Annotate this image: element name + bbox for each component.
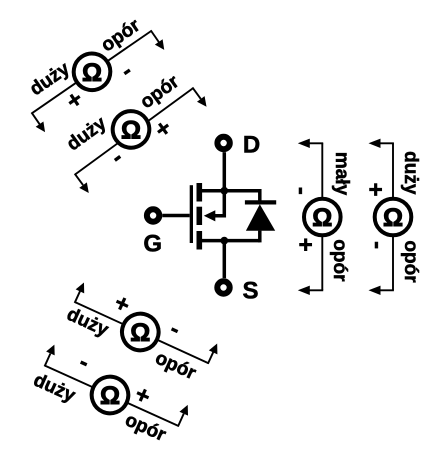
svg-text:G: G xyxy=(143,230,162,257)
svg-text:S: S xyxy=(242,278,258,305)
probe arrow M3 right xyxy=(208,352,213,364)
wire diode top xyxy=(258,189,262,203)
probe arrow M5 top xyxy=(309,142,323,144)
meter circle M2 xyxy=(105,104,156,155)
svg-text:+: + xyxy=(361,182,388,196)
probe arrow M4 left xyxy=(45,353,51,366)
wire M6 main line xyxy=(392,143,394,290)
ohmmeter M1 (duży opór, top-left) xyxy=(12,5,173,142)
terminal S ring xyxy=(217,281,229,293)
svg-text:Ω: Ω xyxy=(100,382,120,410)
svg-text:Ω: Ω xyxy=(121,116,141,144)
probe arrow M5 bottom xyxy=(309,289,323,291)
svg-text:mały: mały xyxy=(331,152,352,196)
probe arrow M6 top xyxy=(380,142,394,144)
meter circle M3 xyxy=(116,308,165,357)
wire M3 main line xyxy=(75,302,208,363)
probe arrow M1 right xyxy=(151,30,159,42)
wire body tie xyxy=(212,191,224,216)
terminal D ring xyxy=(217,137,229,149)
probe arrow M2 right xyxy=(192,87,200,98)
svg-text:-: - xyxy=(364,241,391,249)
wire M4 main line xyxy=(45,366,178,426)
svg-text:Ω: Ω xyxy=(82,59,102,87)
wire M2 main line xyxy=(75,88,193,174)
ohmmeter M5 (mały opór, right inner) xyxy=(288,139,352,295)
ohmmeter M6 (duży opór, right outer) xyxy=(361,139,421,295)
svg-text:duży: duży xyxy=(400,151,421,195)
diode D1 triangle xyxy=(246,204,275,231)
junction drain node xyxy=(220,187,228,195)
meter circle M1 xyxy=(67,46,118,97)
body arrow into channel xyxy=(204,210,216,221)
svg-text:Ω: Ω xyxy=(130,319,150,347)
wire source xyxy=(223,241,227,279)
svg-text:Ω: Ω xyxy=(312,204,332,232)
meter circle M6 xyxy=(375,199,412,236)
terminal G ring xyxy=(147,209,159,221)
probe arrow M4 right xyxy=(178,414,184,427)
ohmmeter M2 (duży opór, second top-left) xyxy=(50,56,214,200)
wire gate lead xyxy=(162,214,189,218)
svg-text:-: - xyxy=(288,187,315,195)
svg-text:opór: opór xyxy=(329,239,350,282)
wire source connection xyxy=(200,239,260,243)
diode D1 cathode bar xyxy=(245,200,276,204)
svg-text:+: + xyxy=(291,238,318,252)
channel bar source xyxy=(197,231,203,250)
ohmmeter M3 (duży opór, bottom-left upper) xyxy=(60,272,226,390)
probe arrow M1 left xyxy=(31,112,39,124)
ohmmeter M4 (duży opór, bottom-left lower) xyxy=(29,334,196,453)
probe arrow M3 left xyxy=(75,291,80,303)
wire diode bottom xyxy=(258,231,262,243)
wire drain xyxy=(223,152,227,191)
svg-text:D: D xyxy=(243,131,260,158)
meter circle M5 xyxy=(304,199,341,236)
channel bar body xyxy=(197,207,203,225)
channel bar drain xyxy=(197,183,203,202)
svg-text:opór: opór xyxy=(400,240,421,283)
gate plate xyxy=(190,185,193,243)
wire M1 main line xyxy=(32,31,151,113)
probe arrow M6 bottom xyxy=(380,289,394,291)
meter circle M4 xyxy=(86,371,134,419)
probe arrow M2 left xyxy=(75,174,83,185)
svg-text:Ω: Ω xyxy=(383,204,403,232)
wire drain connection xyxy=(200,189,260,193)
junction source node xyxy=(220,237,228,245)
transistor Q1 (N-MOSFET with body diode) xyxy=(143,131,276,304)
wire M5 main line xyxy=(321,143,323,290)
